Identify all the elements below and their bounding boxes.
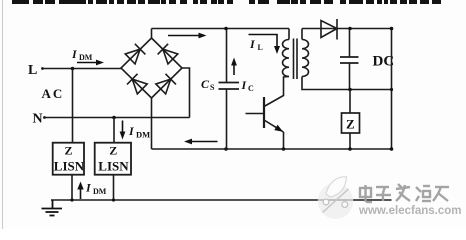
junction dot rail right bottom bbox=[390, 147, 394, 151]
current arrow on top rail bbox=[168, 33, 207, 39]
capacitor C_S bbox=[226, 29, 228, 83]
bridge diode top-left bbox=[125, 44, 145, 65]
svg-text:L: L bbox=[28, 63, 37, 78]
output rectifier diode bbox=[321, 21, 337, 38]
impedance Z box bbox=[342, 113, 360, 133]
svg-text:I: I bbox=[128, 124, 135, 138]
capacitor output filter bbox=[349, 29, 351, 58]
LISN box 2 bbox=[95, 143, 131, 175]
svg-text:DM: DM bbox=[79, 53, 93, 62]
ground symbol bbox=[42, 200, 63, 216]
svg-text:I: I bbox=[249, 37, 256, 51]
transistor Q emitter bbox=[264, 120, 284, 132]
junction dot C_S bottom bbox=[224, 147, 228, 151]
transformer T secondary winding bbox=[301, 29, 303, 40]
wire right edge vertical bbox=[391, 29, 393, 150]
wire bridge top riser bbox=[151, 29, 153, 39]
wire LISN1 riser bbox=[72, 69, 74, 143]
current arrow I_DM (N branch) bbox=[120, 121, 126, 140]
terminal dot L bbox=[41, 67, 44, 70]
svg-text:DM: DM bbox=[136, 130, 150, 140]
svg-text:N: N bbox=[33, 112, 43, 127]
svg-text:Z: Z bbox=[65, 144, 73, 158]
bridge diode bottom-left bbox=[127, 74, 147, 95]
terminal dot N bbox=[43, 116, 46, 119]
junction dot secondary rail right bbox=[390, 88, 393, 91]
svg-text:I: I bbox=[241, 78, 248, 92]
watermark URL text bbox=[359, 205, 466, 217]
svg-text:C: C bbox=[201, 77, 210, 91]
wire LISN1 drop bbox=[71, 175, 73, 200]
wire secondary bottom lead bbox=[302, 77, 392, 90]
wire LISN2 riser bbox=[113, 118, 115, 143]
wire ground line bbox=[51, 199, 392, 201]
junction dot emitter rail bbox=[282, 147, 286, 151]
wire N line bbox=[45, 117, 190, 119]
wire top rail bbox=[152, 28, 290, 30]
transformer T primary winding bbox=[288, 29, 290, 40]
svg-text:DM: DM bbox=[93, 187, 107, 196]
junction dot Z bottom bbox=[348, 147, 352, 151]
junction dot C_S top bbox=[224, 27, 228, 31]
wire bridge bottom drop bbox=[151, 98, 153, 149]
junction dot output cap top bbox=[348, 27, 352, 31]
cropped caption text (clipped at top edge) bbox=[12, 0, 441, 4]
current arrow I_DM (ground) bbox=[77, 182, 83, 200]
svg-text:Z: Z bbox=[346, 117, 355, 132]
svg-text:LISN: LISN bbox=[54, 159, 85, 174]
wire Z riser bbox=[349, 90, 351, 114]
svg-text:C: C bbox=[248, 84, 254, 93]
svg-text:LISN: LISN bbox=[98, 159, 129, 174]
junction dot rail right end bbox=[390, 27, 394, 31]
wire Z drop bbox=[349, 133, 351, 149]
wire N riser to bridge right vertex bbox=[182, 68, 190, 118]
current arrow return (left) bbox=[184, 139, 218, 145]
bridge rectifier diamond wires bbox=[121, 38, 182, 98]
wire bottom rail bbox=[152, 148, 392, 150]
wire LISN2 drop bbox=[113, 175, 115, 200]
watermark Chinese text 电子发烧友 bbox=[360, 184, 449, 202]
bridge diode bottom-right bbox=[155, 74, 175, 95]
svg-text:I: I bbox=[71, 47, 78, 61]
junction dot on L at LISN tap bbox=[71, 67, 75, 71]
svg-text:AC: AC bbox=[42, 86, 65, 101]
svg-text:L: L bbox=[258, 43, 263, 52]
wire emitter drop bbox=[283, 132, 285, 149]
transformer core bbox=[293, 39, 295, 80]
current arrow I_C bbox=[231, 58, 237, 76]
transistor Q base lead bbox=[246, 113, 265, 115]
scan edge line bbox=[2, 0, 4, 229]
bridge diode top-right bbox=[158, 44, 178, 65]
junction dot LISN1 ground bbox=[70, 198, 73, 201]
svg-text:Z: Z bbox=[109, 144, 117, 158]
svg-text:I: I bbox=[85, 181, 92, 195]
LISN box 1 bbox=[53, 143, 84, 175]
svg-text:S: S bbox=[210, 83, 215, 92]
transistor Q base bar bbox=[263, 97, 265, 128]
transistor Q collector bbox=[264, 77, 289, 107]
wire top-right rail bbox=[302, 28, 392, 30]
watermark logo bbox=[318, 177, 354, 219]
current arrow I_DM on L bbox=[77, 60, 104, 66]
junction dot Z tap bbox=[348, 88, 352, 92]
current arrow I_L bbox=[249, 35, 281, 55]
wire L line bbox=[43, 68, 122, 70]
junction dot on N at LISN tap bbox=[112, 116, 116, 120]
junction dot LISN2 ground bbox=[112, 198, 115, 201]
